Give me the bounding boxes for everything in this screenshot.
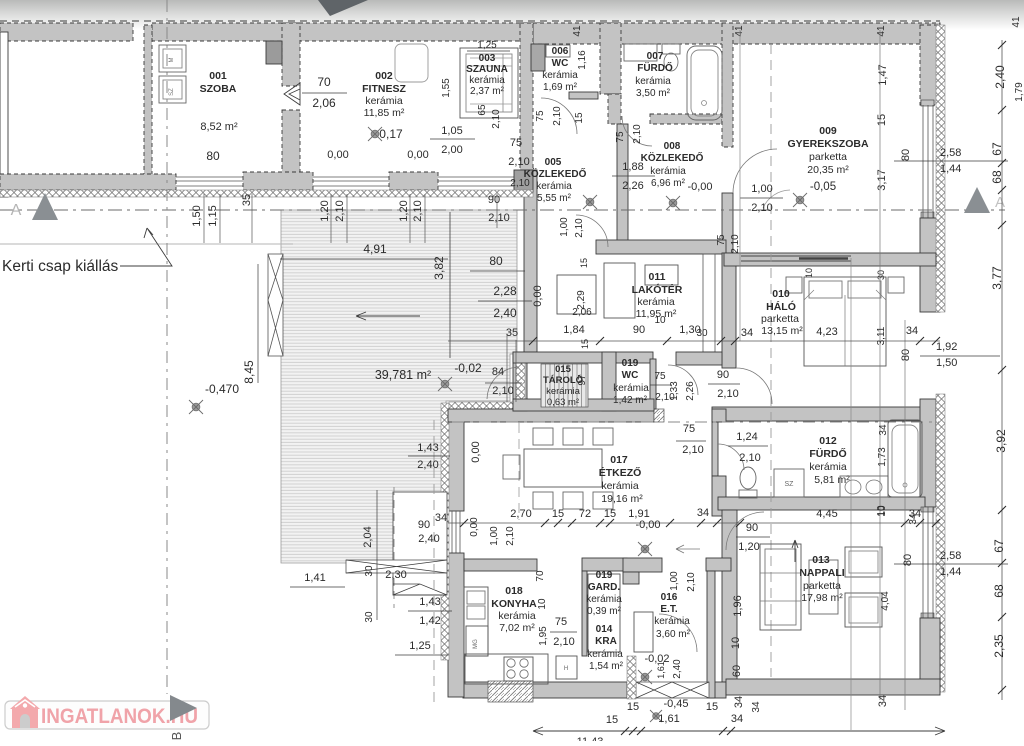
konyha counter left <box>464 587 488 656</box>
svg-text:15: 15 <box>706 701 718 713</box>
wall piece right of entry gap <box>712 409 726 422</box>
svg-text:2,10: 2,10 <box>686 572 697 592</box>
svg-text:018: 018 <box>505 585 523 597</box>
svg-text:34: 34 <box>906 325 918 337</box>
svg-text:11,85 m²: 11,85 m² <box>364 107 405 119</box>
svg-text:009: 009 <box>819 125 837 137</box>
svg-text:-0,00: -0,00 <box>687 181 712 193</box>
section triangle A left <box>32 193 58 220</box>
wall 008 bottom / lakoter top <box>596 240 726 254</box>
svg-text:1,20: 1,20 <box>398 200 410 221</box>
hatch strip below row1 walls <box>0 190 533 197</box>
svg-text:10: 10 <box>877 505 888 517</box>
door arc 008-009 <box>733 149 777 193</box>
svg-text:41: 41 <box>1011 16 1022 28</box>
window fitnesz bottom sill 1 <box>313 177 389 186</box>
svg-text:2,00: 2,00 <box>441 144 462 156</box>
watermark house icon <box>10 696 40 728</box>
wall tarolo-wc19 divider <box>602 352 616 411</box>
wall right outer bottom <box>920 618 940 692</box>
svg-text:-0,45: -0,45 <box>663 698 688 710</box>
svg-text:13,15 m²: 13,15 m² <box>761 325 803 337</box>
svg-text:2,10: 2,10 <box>751 202 772 214</box>
svg-text:1,96: 1,96 <box>732 595 744 616</box>
svg-text:80: 80 <box>900 349 912 361</box>
sliding door stripes in halo top wall <box>741 256 851 261</box>
svg-text:1,79: 1,79 <box>1014 82 1024 102</box>
szauna bench lines <box>502 54 504 112</box>
door chevron szoba 001 <box>284 83 300 105</box>
svg-text:2,06: 2,06 <box>572 307 592 318</box>
svg-text:2,04: 2,04 <box>362 526 374 547</box>
svg-text:2,10: 2,10 <box>717 388 738 400</box>
svg-text:-0,05: -0,05 <box>810 181 836 193</box>
svg-text:006: 006 <box>552 46 569 57</box>
svg-text:15: 15 <box>580 339 590 349</box>
svg-text:1,42 m²: 1,42 m² <box>613 395 648 406</box>
konyha counter bottom <box>465 654 548 684</box>
svg-text:72: 72 <box>579 508 591 520</box>
svg-text:1,00: 1,00 <box>559 217 570 237</box>
wall furdo12 bottom / nappali top <box>718 497 925 510</box>
svg-text:kerámia: kerámia <box>546 386 581 397</box>
door arc wc19 <box>668 365 698 395</box>
dark block szauna bottom right <box>514 170 533 192</box>
svg-text:kerámia: kerámia <box>637 296 675 308</box>
bed in halo 010 <box>804 277 886 366</box>
svg-text:1,88: 1,88 <box>622 161 643 173</box>
svg-text:WC: WC <box>552 58 569 69</box>
svg-text:3,11: 3,11 <box>876 326 887 345</box>
pillar dark in 001 corner <box>266 41 282 64</box>
svg-text:1,95: 1,95 <box>538 626 549 646</box>
dim chain verticals right <box>879 30 881 700</box>
svg-text:NAPPALI: NAPPALI <box>799 567 844 579</box>
wall et top block <box>623 558 662 572</box>
svg-text:90: 90 <box>717 369 729 381</box>
svg-text:kerámia: kerámia <box>613 383 649 394</box>
marker fitnesz <box>368 127 382 141</box>
svg-text:41: 41 <box>734 25 745 37</box>
svg-text:1,42: 1,42 <box>419 615 440 627</box>
svg-text:-0,02: -0,02 <box>454 361 482 375</box>
chairs etkezo <box>533 428 553 445</box>
svg-text:1,50: 1,50 <box>936 357 957 369</box>
svg-text:2,06: 2,06 <box>312 96 336 110</box>
svg-text:2,10: 2,10 <box>632 124 643 144</box>
chimney hatch block <box>488 681 533 702</box>
svg-text:0,39 m²: 0,39 m² <box>587 606 622 617</box>
svg-text:GARD.: GARD. <box>588 582 620 593</box>
svg-text:3,92: 3,92 <box>994 429 1008 453</box>
svg-text:B: B <box>169 732 184 741</box>
svg-text:2,10: 2,10 <box>508 156 529 168</box>
lakoter right shaft <box>703 254 715 352</box>
svg-text:kerámia: kerámia <box>587 649 623 660</box>
svg-text:kerámia: kerámia <box>635 76 671 87</box>
marker 005 <box>583 195 597 209</box>
svg-text:34: 34 <box>733 696 745 708</box>
svg-text:39,781 m²: 39,781 m² <box>375 368 431 382</box>
svg-text:HÁLÓ: HÁLÓ <box>766 300 796 313</box>
svg-text:2,10: 2,10 <box>553 636 574 648</box>
svg-text:1,00: 1,00 <box>751 183 772 195</box>
svg-text:34: 34 <box>877 695 889 707</box>
window 001 bottom sill <box>176 177 243 186</box>
svg-text:8,52 m²: 8,52 m² <box>200 121 238 133</box>
bathtub furdo 012 <box>888 420 922 497</box>
wall etkezo top <box>448 409 654 422</box>
svg-text:2,40: 2,40 <box>418 533 439 545</box>
svg-text:15: 15 <box>579 258 589 268</box>
svg-text:0,00: 0,00 <box>327 149 348 161</box>
entry arrow nappali <box>792 540 798 562</box>
svg-text:-0,00: -0,00 <box>635 519 660 531</box>
svg-text:013: 013 <box>812 554 830 566</box>
svg-text:3,82: 3,82 <box>432 256 446 280</box>
wall right outer mid <box>920 218 940 312</box>
door arc 005 <box>576 215 608 247</box>
svg-text:20,35 m²: 20,35 m² <box>807 164 849 176</box>
svg-text:2,37 m²: 2,37 m² <box>470 86 505 97</box>
svg-text:kerámia: kerámia <box>536 181 572 192</box>
svg-text:kerámia: kerámia <box>654 616 690 627</box>
svg-text:003: 003 <box>479 53 496 64</box>
svg-text:014: 014 <box>596 624 613 635</box>
wall halo left <box>722 253 736 368</box>
wall 007-009 divider upper <box>722 23 733 147</box>
svg-text:1,84: 1,84 <box>563 324 584 336</box>
hatch strip etkezo top outside <box>449 402 522 409</box>
section line A horizontal <box>0 209 1005 211</box>
wall top band right of wc19 door <box>676 352 722 365</box>
svg-text:LAKÓTÉR: LAKÓTÉR <box>632 283 683 296</box>
svg-text:parketta: parketta <box>761 313 799 325</box>
top dark cut triangle <box>318 0 368 16</box>
canopy strip lower triangles <box>393 584 447 595</box>
wall 005-006 region mid <box>569 92 598 99</box>
plot boundary line left <box>0 243 293 245</box>
svg-text:1,69 m²: 1,69 m² <box>543 82 578 93</box>
svg-text:1,44: 1,44 <box>940 163 961 175</box>
svg-text:1,44: 1,44 <box>940 566 961 578</box>
svg-text:kerámia: kerámia <box>650 166 686 177</box>
terrace stair strip left <box>268 254 283 356</box>
svg-text:3,17: 3,17 <box>876 169 888 190</box>
svg-text:2,10: 2,10 <box>412 200 424 221</box>
svg-text:1,16: 1,16 <box>577 50 588 70</box>
svg-text:34: 34 <box>741 327 753 339</box>
svg-text:75: 75 <box>683 423 695 435</box>
svg-text:15: 15 <box>604 508 616 520</box>
svg-text:2,10: 2,10 <box>491 109 502 129</box>
wall tarolo block left <box>513 352 527 411</box>
svg-text:2,10: 2,10 <box>574 218 585 238</box>
sofa nappali <box>760 544 801 630</box>
svg-text:SZOBA: SZOBA <box>200 83 237 95</box>
wall gard top <box>582 558 627 571</box>
svg-text:1,00: 1,00 <box>669 571 680 591</box>
hatch strip tarolo left <box>516 354 525 409</box>
shower SZ box furdo 012 <box>774 469 804 497</box>
hatch strip right outer lower <box>936 394 945 692</box>
svg-text:kerámia: kerámia <box>542 70 578 81</box>
svg-text:1,25: 1,25 <box>477 40 497 51</box>
wall wc19 right thin <box>650 359 656 409</box>
svg-text:2,10: 2,10 <box>505 526 516 546</box>
svg-text:75: 75 <box>615 131 626 143</box>
svg-text:70: 70 <box>535 570 546 582</box>
svg-text:3,60 m²: 3,60 m² <box>656 629 691 640</box>
svg-text:2,35: 2,35 <box>992 634 1006 658</box>
nightstand left halo <box>786 277 802 293</box>
dim lines tarolo door <box>506 335 508 402</box>
wall halo bottom / furdo12 top <box>712 407 940 421</box>
svg-text:15: 15 <box>627 701 639 713</box>
svg-text:011: 011 <box>649 271 666 283</box>
dining table etkezo <box>524 449 602 487</box>
dashed vertical line x434 <box>433 420 435 703</box>
coffee table nappali <box>809 560 838 614</box>
nightstand right halo <box>888 277 904 293</box>
hatch strip right outer upper <box>936 25 945 312</box>
svg-text:4,91: 4,91 <box>363 242 387 256</box>
door arc 006 wc <box>541 98 577 134</box>
svg-text:80: 80 <box>902 554 914 566</box>
svg-text:65: 65 <box>477 104 488 116</box>
svg-text:007: 007 <box>647 51 664 62</box>
svg-text:SZ: SZ <box>169 88 175 96</box>
svg-text:15: 15 <box>606 714 618 726</box>
svg-text:kerámia: kerámia <box>365 95 403 107</box>
svg-text:005: 005 <box>545 157 562 168</box>
svg-text:2,40: 2,40 <box>993 65 1007 89</box>
washbasin in furdo 007 <box>624 44 657 61</box>
svg-text:1,54 m²: 1,54 m² <box>589 661 624 672</box>
svg-text:Kerti csap kiállás: Kerti csap kiállás <box>2 258 119 275</box>
svg-text:kerámia: kerámia <box>601 480 639 492</box>
svg-text:016: 016 <box>661 592 678 603</box>
svg-text:2,10: 2,10 <box>492 385 513 397</box>
marker terrace <box>438 377 452 391</box>
svg-text:2,10: 2,10 <box>739 452 760 464</box>
svg-text:10: 10 <box>804 268 814 278</box>
wall tarolo bottom band <box>513 399 654 411</box>
wall furdo12 left thick <box>712 476 726 516</box>
entry porch X brace <box>636 682 709 698</box>
dashed vertical gyerekszoba-nappali <box>770 44 772 677</box>
svg-text:2,10: 2,10 <box>488 212 509 224</box>
window sill blocks nappali <box>921 507 934 512</box>
sink H box konyha <box>556 656 577 679</box>
svg-text:2,10: 2,10 <box>730 234 741 254</box>
svg-text:1,24: 1,24 <box>736 431 757 443</box>
svg-text:KÖZLEKEDŐ: KÖZLEKEDŐ <box>524 167 587 180</box>
svg-text:019: 019 <box>596 570 613 581</box>
double washbasin furdo 012 <box>840 476 888 497</box>
wall fitnesz right / szauna <box>520 23 533 170</box>
wall bottom outer nappali <box>726 679 940 695</box>
wall left outer edge <box>0 32 8 197</box>
svg-text:2,58: 2,58 <box>940 147 961 159</box>
svg-text:75: 75 <box>510 137 522 149</box>
svg-text:1,43: 1,43 <box>417 442 438 454</box>
watermark ingatlanok.hu box <box>5 701 209 729</box>
kerti csap leader <box>120 228 172 266</box>
svg-text:SZ: SZ <box>785 481 795 488</box>
window gyerekszoba right <box>923 105 933 218</box>
svg-text:0,00: 0,00 <box>470 441 482 462</box>
svg-text:1,61: 1,61 <box>658 713 679 725</box>
svg-text:5,55 m²: 5,55 m² <box>537 193 572 204</box>
svg-text:15: 15 <box>876 114 888 126</box>
marker gyerekszoba <box>793 193 807 207</box>
bathtub in furdo 007 <box>687 46 722 120</box>
svg-text:H: H <box>564 666 568 672</box>
wall konyha top <box>464 559 537 571</box>
svg-text:1,33: 1,33 <box>669 381 680 401</box>
wall et right top <box>706 558 731 571</box>
svg-text:0,00: 0,00 <box>532 285 544 306</box>
window nappali right <box>923 507 933 618</box>
svg-text:34: 34 <box>878 424 889 436</box>
terrace arrow left <box>356 312 420 320</box>
wall top outer band <box>0 23 133 41</box>
svg-text:10: 10 <box>537 598 548 610</box>
door arc et entry <box>659 614 697 652</box>
svg-text:A: A <box>995 194 1005 211</box>
svg-text:15: 15 <box>574 112 585 124</box>
svg-text:010: 010 <box>772 288 790 300</box>
wall et right thin <box>707 571 715 698</box>
svg-text:KONYHA: KONYHA <box>491 598 537 610</box>
svg-text:5,81 m²: 5,81 m² <box>814 474 850 486</box>
svg-text:1,05: 1,05 <box>441 125 462 137</box>
svg-text:90: 90 <box>633 324 645 336</box>
svg-text:2,28: 2,28 <box>493 284 517 298</box>
section triangle B bottom <box>170 695 197 721</box>
svg-text:2,58: 2,58 <box>940 550 961 562</box>
door arc tarolo terrace <box>487 367 519 399</box>
svg-text:FÜRDŐ: FÜRDŐ <box>809 447 846 460</box>
wall 005 left lower <box>524 170 537 352</box>
section line C horizontal dashed <box>452 421 940 423</box>
svg-text:1,55: 1,55 <box>441 78 452 98</box>
svg-text:30: 30 <box>364 611 375 623</box>
svg-text:kerámia: kerámia <box>469 75 505 86</box>
svg-text:kerámia: kerámia <box>809 461 847 473</box>
svg-text:60: 60 <box>731 665 743 677</box>
svg-text:0,00: 0,00 <box>469 517 480 537</box>
wall gyerekszoba - halo divider <box>724 253 936 266</box>
bay window outline left of etkezo <box>393 492 447 595</box>
window szauna bottom sill <box>438 177 514 186</box>
svg-text:75: 75 <box>535 110 546 122</box>
wall bottom outer left <box>463 682 627 698</box>
svg-text:008: 008 <box>664 141 681 152</box>
gard wardrobe box <box>588 574 620 652</box>
svg-text:1,50: 1,50 <box>191 205 203 226</box>
svg-text:30: 30 <box>364 565 375 577</box>
svg-text:11,43: 11,43 <box>577 736 604 741</box>
svg-text:35: 35 <box>241 194 253 206</box>
svg-text:1,92: 1,92 <box>936 341 957 353</box>
svg-text:parketta: parketta <box>803 580 841 592</box>
svg-text:012: 012 <box>819 435 837 447</box>
marker 008 <box>666 196 680 210</box>
wall nappali left <box>722 510 737 682</box>
toilet in furdo 007 <box>662 44 680 54</box>
svg-text:1,43: 1,43 <box>419 596 440 608</box>
wall etkezo left upper <box>448 407 464 511</box>
svg-text:kerámia: kerámia <box>586 594 622 605</box>
svg-text:MG: MG <box>473 639 479 649</box>
wall right outer upper <box>920 25 940 105</box>
svg-text:2,30: 2,30 <box>385 569 406 581</box>
svg-text:68: 68 <box>992 584 1006 598</box>
svg-text:WC: WC <box>622 370 639 381</box>
svg-text:80: 80 <box>489 254 503 268</box>
hatch block etkezo top wall end <box>654 409 664 422</box>
svg-text:0,00: 0,00 <box>407 149 428 161</box>
svg-text:2,40: 2,40 <box>672 659 683 679</box>
svg-text:2,70: 2,70 <box>510 508 531 520</box>
svg-text:0,63 m²: 0,63 m² <box>547 397 579 408</box>
door arc nappali <box>726 512 764 550</box>
svg-text:90: 90 <box>418 519 430 531</box>
svg-text:1,41: 1,41 <box>304 572 325 584</box>
svg-text:001: 001 <box>209 70 227 82</box>
svg-text:7,02 m²: 7,02 m² <box>499 622 535 634</box>
svg-text:1,20: 1,20 <box>738 541 759 553</box>
wall konyha left lower <box>448 553 464 697</box>
dim vertical lines under row1 wall <box>203 194 205 243</box>
svg-text:parketta: parketta <box>809 151 847 163</box>
wall 008-009 divider lower <box>722 193 733 253</box>
svg-text:41: 41 <box>572 25 583 37</box>
svg-text:6,96 m²: 6,96 m² <box>651 178 686 189</box>
window etkezo left <box>452 511 460 553</box>
svg-text:-0,470: -0,470 <box>205 382 239 396</box>
svg-text:84: 84 <box>492 366 504 378</box>
svg-text:90: 90 <box>488 194 500 206</box>
fridge MG konyha <box>466 626 488 656</box>
svg-text:4,45: 4,45 <box>816 508 837 520</box>
svg-text:015: 015 <box>555 364 572 375</box>
bay dashed edge line <box>393 487 395 608</box>
svg-text:10: 10 <box>654 315 666 326</box>
wall furdo12 left thin <box>712 421 718 476</box>
svg-text:4,23: 4,23 <box>816 326 837 338</box>
svg-text:2,26: 2,26 <box>685 381 696 401</box>
svg-text:FÜRDŐ: FÜRDŐ <box>637 61 673 74</box>
svg-text:2,10: 2,10 <box>682 444 703 456</box>
wall 008 left lower <box>617 124 628 243</box>
stove konyha <box>504 657 533 681</box>
svg-text:GYEREKSZOBA: GYEREKSZOBA <box>787 138 869 150</box>
section triangle A right <box>964 187 990 213</box>
svg-text:1,61: 1,61 <box>656 661 666 679</box>
wall 001-002 divider <box>282 23 300 86</box>
svg-text:E.T.: E.T. <box>660 604 677 615</box>
svg-text:34: 34 <box>751 701 762 713</box>
dashed vertical etkezo <box>518 423 520 520</box>
svg-text:2,10: 2,10 <box>552 106 563 126</box>
svg-text:1,47: 1,47 <box>877 64 889 85</box>
wall bottom outer entry piece <box>709 682 726 698</box>
svg-text:15: 15 <box>552 508 564 520</box>
svg-text:8,45: 8,45 <box>242 360 256 384</box>
